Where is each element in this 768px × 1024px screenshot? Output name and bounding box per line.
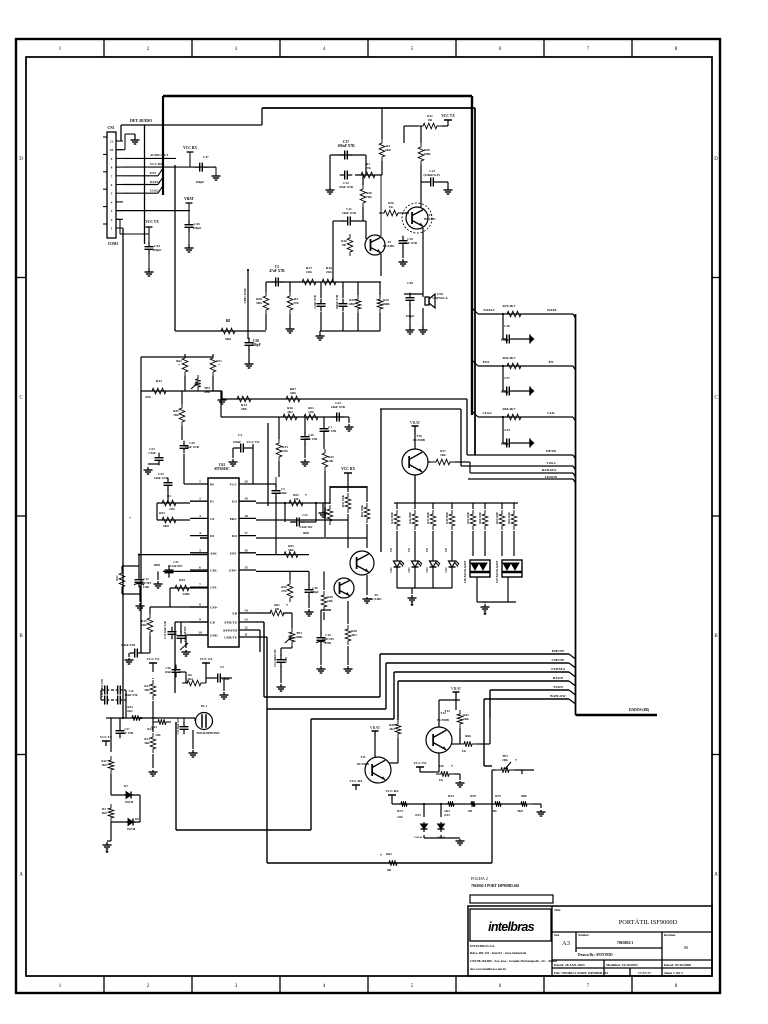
ground below C19 [402,259,404,262]
wire T2 emitter down [380,254,382,276]
svg-text:EN2: EN2 [150,171,156,175]
wire pin4 stub [200,537,208,539]
resistor R29 vertical [355,295,361,313]
resistor R77 10K [431,459,455,465]
svg-text:2.2nF/50V: 2.2nF/50V [169,564,183,568]
capacitor C23 [158,453,160,458]
svg-text:0R: 0R [428,118,433,122]
wire r51 bottom join [122,593,140,595]
svg-text:R48 390R: R48 390R [446,512,449,523]
resistor R28 vertical [263,292,269,314]
svg-text:10K: 10K [290,391,296,395]
resistor R14 [232,396,256,402]
svg-text:2.2uF/16V: 2.2uF/16V [299,525,313,529]
wire pin6 crc [163,570,208,572]
capacitor C1 47nF [323,424,325,429]
svg-text:BYPATH: BYPATH [223,629,237,633]
svg-text:VD: VD [426,548,429,552]
svg-text:C21 56nF X7R: C21 56nF X7R [177,717,180,734]
ic U1 right pin stubs and numbers [239,483,256,485]
ground pin10 [185,650,187,652]
resistor R55 56K [279,552,303,558]
svg-text:VCC RX: VCC RX [385,789,399,793]
diode D14 vertical [440,803,442,805]
svg-text:Drawn By: ANTONIO: Drawn By: ANTONIO [578,953,613,957]
wire pin11 long vertical down [266,637,268,863]
svg-text:1K8: 1K8 [101,811,107,815]
svg-text:BATLOW: BATLOW [550,694,566,698]
wire audio to C11 [332,221,334,282]
svg-text:150R: 150R [423,152,431,156]
ground right of R80 [540,810,542,812]
svg-text:VCC RX: VCC RX [341,467,355,471]
bus exit data2 [472,308,478,314]
svg-text:R64 100K: R64 100K [361,504,364,517]
svg-text:C37: C37 [504,376,510,380]
wire mic riser [175,722,177,830]
resistor R74 1K2 [443,801,459,807]
ground below C15 [139,603,141,606]
ground below C9 [223,692,225,695]
revision box empty [470,895,553,903]
capacitor C29 [181,426,183,440]
wire det ruido step [261,108,263,125]
svg-text:220R: 220R [182,592,190,596]
resistor R53 6K8 [157,517,181,523]
svg-text:R79: R79 [495,794,501,798]
ground below C45 [188,244,190,248]
svg-text:10: 10 [198,631,202,635]
resistor R42 1K8 vertical [108,756,114,774]
svg-text:Dated: 03/10/2008: Dated: 03/10/2008 [664,963,691,967]
svg-text:C4: C4 [238,433,242,437]
svg-text:EPI+: EPI+ [229,569,237,573]
row tick marks left [16,277,26,279]
capacitor C21 vertical [183,722,185,727]
intelbras logo box [470,909,551,941]
svg-text:C32: C32 [302,513,308,517]
wire batlow riser to TP1 [483,699,485,766]
wire txdata bottom horizontal [176,829,311,831]
svg-text:PORTÁTIL ISF9000D: PORTÁTIL ISF9000D [619,918,678,926]
bus entries right data/en/clk [573,314,576,318]
svg-text:ADC: ADC [210,551,218,555]
bus vertical DADOS [575,314,577,715]
svg-text:R47 390R: R47 390R [427,512,430,523]
svg-text:VOL2: VOL2 [546,461,556,465]
resistor R4 vertical [379,139,385,161]
svg-text:6K2: 6K2 [127,709,133,713]
svg-text:VD: VD [445,548,448,552]
wire RXON [398,680,569,682]
wire T2 collector up [380,175,382,236]
backlight led package LD6 [470,560,490,577]
svg-text:12: 12 [244,626,248,630]
size/number divider [575,932,577,952]
resistor R62 vertical [182,354,188,376]
svg-text:VCC RX: VCC RX [183,146,197,150]
trimmer arrow pin10 [180,643,188,650]
ground below R23 [152,770,154,772]
trimmer TP3 vertical [289,628,295,646]
svg-text:DETR: DETR [546,449,556,453]
ground at pin10 [116,149,125,151]
svg-text:18: 18 [244,514,248,518]
svg-text:D: D [19,157,23,162]
wire pin20 vcc net [256,483,276,485]
svg-text:R51: R51 [115,575,119,581]
svg-text:Rdva. BR 101 - Km212 - Area In: Rdva. BR 101 - Km212 - Area Industrial [470,951,526,955]
svg-text:100pF: 100pF [251,343,261,347]
svg-text:47K: 47K [365,166,371,170]
svg-text:2K2: 2K2 [187,677,193,681]
svg-text:*: * [380,854,382,858]
svg-text:CLK2: CLK2 [150,189,159,193]
svg-text:CEP 88.104.800 - Sao Jose - Gr: CEP 88.104.800 - Sao Jose - Grande Flori… [470,959,557,963]
resistor R67 [281,396,305,402]
resistor R73 12K [396,801,412,807]
trimmer TP2 [195,375,201,391]
svg-text:EN: EN [549,360,554,364]
resistor R8 [216,328,240,334]
svg-text:LD6 BACKLIGHT: LD6 BACKLIGHT [464,561,467,584]
svg-text:1K: 1K [389,205,394,209]
svg-text:1K8: 1K8 [101,763,107,767]
svg-text:68K: 68K [349,302,355,306]
ground right of C47 [206,166,216,168]
svg-text:6: 6 [199,566,201,570]
svg-text:4K7: 4K7 [351,633,357,637]
svg-text:(220uF/6.3V: (220uF/6.3V [423,173,441,177]
svg-text:10nF X7R: 10nF X7R [185,445,200,449]
svg-text:56K: 56K [144,688,150,692]
svg-text:76K: 76K [366,195,372,199]
wire RXDATA [470,472,573,474]
svg-text:27K: 27K [282,449,288,453]
svg-text:Sheet 1 OF 2: Sheet 1 OF 2 [664,971,683,975]
svg-text:Title: Title [554,908,561,912]
svg-text:1N4148: 1N4148 [414,836,423,839]
svg-text:1M: 1M [294,497,299,501]
ic U1 left pin stubs and numbers [190,483,208,485]
svg-text:56K: 56K [144,741,150,745]
capacitor C44 [148,234,150,244]
svg-text:47uF X7R: 47uF X7R [269,269,285,273]
svg-text:R59 150K: R59 150K [342,494,345,507]
wire pin2 loop [157,502,190,504]
wire VOL2 [461,465,573,467]
wire preamp bottom rail [320,330,380,332]
svg-text:A: A [19,873,23,878]
resistor R51 vertical [119,569,125,591]
capacitor C3 vertical [342,299,344,304]
resistor R21 12K [299,414,323,420]
svg-text:MICROPHONE: MICROPHONE [196,731,219,735]
diode D9 [111,821,140,823]
wire bottom analog rail [392,803,524,805]
resistor R12 [147,388,171,394]
svg-text:CMUTE: CMUTE [224,636,238,640]
svg-text:100nF X7R: 100nF X7R [121,643,136,647]
wire DETR [467,454,573,456]
ground below C33 [280,684,282,687]
svg-text:CRC: CRC [210,569,218,573]
wire pin14 eb [256,612,271,614]
wire TXDATA [394,671,569,673]
svg-text:*: * [129,516,131,521]
svg-text:AUDIO OUT: AUDIO OUT [150,153,169,157]
svg-text:47nF X7R: 47nF X7R [324,429,338,433]
ground R52 loop [322,511,324,513]
wire R13 down [278,461,280,477]
svg-text:R74: R74 [448,794,454,798]
svg-text:TXDATA: TXDATA [551,667,566,671]
backlight led package LD7 [502,560,522,577]
svg-text:GND: GND [210,634,218,638]
svg-text:C47: C47 [203,155,209,159]
capacitor C45 [188,211,190,222]
wire EMUTE [380,653,569,655]
svg-text:0R: 0R [342,243,347,247]
svg-text:R69 220R: R69 220R [508,512,511,523]
resistor R52 1M loop [284,500,308,506]
svg-text:P1: P1 [210,500,214,504]
svg-text:CPI+: CPI+ [210,606,218,610]
stub TP1 right [521,770,523,774]
wire R25 down to T area [324,471,326,537]
resistor R17 [297,279,321,285]
wire pin1 net [183,454,185,484]
bus entry data2 [158,177,163,185]
svg-text:DET. RUIDO: DET. RUIDO [130,119,152,123]
svg-text:8: 8 [199,603,201,607]
svg-text:LD5: LD5 [445,567,448,573]
svg-text:2K2: 2K2 [287,410,293,414]
svg-text:17: 17 [244,531,248,535]
column tick marks top [103,39,105,57]
svg-text:1.5nF: 1.5nF [148,451,156,455]
svg-text:VCC RX: VCC RX [150,162,163,166]
resistor R41 10K vertical [457,710,463,728]
svg-text:12K: 12K [397,815,403,819]
svg-text:VCC: VCC [230,483,238,487]
bus entry clk2 [158,186,163,194]
svg-text:13: 13 [244,618,248,622]
svg-text:R54: R54 [179,578,185,582]
svg-text:CLK2: CLK2 [482,411,492,415]
svg-text:BC548C: BC548C [370,597,382,601]
resistor R15 vertical [147,614,153,636]
svg-text:R36: R36 [438,764,444,768]
backlight resistors 220R [470,510,476,530]
bus riser right pair [471,96,473,415]
resistor R20 vertical [377,295,383,313]
resistor R56 4K7 [502,363,526,369]
svg-text:100nF X7R: 100nF X7R [125,694,138,697]
ground below C4 [232,459,234,462]
svg-text:1K: 1K [439,778,444,782]
resistor R10 vertical [347,234,353,256]
capacitor C9 100nF [213,677,218,679]
svg-text:5K6: 5K6 [256,301,262,305]
svg-text:7: 7 [199,583,201,587]
resistor R78 0R [466,801,480,807]
wire pin17 do [256,537,367,539]
svg-text:VBAT: VBAT [451,686,462,691]
svg-text:D14: D14 [444,813,450,817]
capacitor C27 [119,726,121,731]
wire cmute riser [385,663,387,709]
ground right of R36b [459,781,461,783]
svg-text:00: 00 [684,945,689,950]
wire TXON [490,689,569,691]
svg-text:A: A [714,873,718,878]
resistor R2 22K [157,500,181,506]
svg-text:1: 1 [199,480,201,484]
ground below T7 [366,597,368,599]
chassis ground C34 [513,442,530,444]
svg-text:1K: 1K [462,749,467,753]
svg-text:100K: 100K [295,635,303,639]
microphone EL1 [196,713,213,730]
wire TP1 riser [491,770,493,863]
svg-text:1206: 1206 [285,657,288,663]
wire pin2 loop [116,218,120,220]
transistor T12 [426,727,452,753]
svg-text:5K6: 5K6 [385,148,391,152]
svg-text:T12: T12 [440,711,446,715]
svg-text:11: 11 [244,633,248,637]
svg-text:0R: 0R [329,459,334,463]
resistor R23 56K vertical [150,733,156,753]
wire vcc rx rail horizontal [330,486,367,488]
svg-text:10K: 10K [502,758,508,762]
ground below diodes [424,837,460,839]
ground below C28 [304,459,306,462]
resistor R25 0R vertical [322,449,328,471]
svg-text:10nF X7R: 10nF X7R [121,731,135,735]
ground left of C100n [128,658,130,660]
ground below CN6 [422,326,424,330]
wire en2 row [123,175,158,177]
svg-text:Size: Size [554,933,560,937]
capacitor C16b electrolytic [320,633,322,638]
svg-text:COM1: COM1 [108,242,119,246]
capacitor C50 [248,338,250,343]
resistor R58 vertical [418,143,424,165]
wire T3 base [402,212,409,214]
svg-text:47uF X7R: 47uF X7R [339,185,354,189]
wire preamp rail upper [175,330,266,332]
wire T3 emitter down [422,228,424,294]
wire pin8 cpi+ net [170,606,208,608]
svg-text:Modified: 15/10/2003: Modified: 15/10/2003 [606,963,638,967]
svg-text:EB: EB [232,612,237,616]
wire C25 drop [167,489,169,503]
svg-text:R46 390R: R46 390R [409,512,412,523]
svg-text:10nF: 10nF [165,670,172,674]
svg-text:22K: 22K [155,733,161,737]
wire txdata return [311,718,394,720]
svg-text:LD2: LD2 [390,567,393,573]
capacitor C40 220pF [308,585,310,590]
svg-text:VCC TX: VCC TX [145,220,159,224]
title block outline [468,906,712,976]
ground right of C13 [447,187,449,190]
wire pin11 det ruido riser [120,125,122,141]
ground below C12 left [329,187,331,190]
wire pin10 gnd [186,634,208,636]
resistor R16 [317,279,341,285]
wire row y417 [221,416,342,418]
svg-text:VCC RX: VCC RX [349,779,363,783]
wire emute return to pin13 [264,696,380,698]
wire pin5 adc line [139,554,208,556]
svg-text:56K: 56K [288,548,294,552]
svg-text:*: * [515,759,517,763]
svg-text:R62: R62 [386,852,392,856]
ground below C40 [308,609,310,612]
wire pin3 loop [157,519,190,521]
svg-text:C9: C9 [220,665,224,669]
resistor R71 vertical [210,354,216,376]
svg-text:LD7 BACKLIGHT: LD7 BACKLIGHT [496,561,499,584]
ground right of C24 [348,424,350,427]
wire T10 emitter to led rail [414,475,416,503]
svg-text:100nF X7R: 100nF X7R [335,294,339,309]
svg-text:*: * [305,494,307,498]
svg-text:5K9: 5K9 [517,809,523,813]
svg-text:CMUTE: CMUTE [551,658,565,662]
led ground rail [397,587,452,589]
wire box around led section [221,398,467,400]
svg-text:2.2nF X7R: 2.2nF X7R [313,294,317,309]
svg-text:A3: A3 [562,940,570,947]
resistor R24 22K [153,719,171,725]
capacitor C25 [167,478,169,483]
wire T2 base [365,221,367,239]
wire LEDON [468,478,573,480]
wire pin18 erc [256,519,348,521]
svg-text:DATA: DATA [547,308,557,312]
backlight ground rail [476,577,478,602]
resistor R62b 0R [384,860,402,866]
svg-text:17:37:27: 17:37:27 [638,971,651,975]
svg-text:100pF: 100pF [196,180,205,184]
wire audio out [123,157,176,159]
wire pin16 epi- [256,554,309,556]
svg-text:10K: 10K [440,453,446,457]
transistor T7 [350,551,374,575]
chassis ground C16 [513,338,530,340]
resistor R30 vertical [360,185,366,207]
svg-text:10K: 10K [141,623,147,627]
svg-text:100pF: 100pF [501,442,509,446]
column tick marks bottom [103,976,105,993]
speaker CN6 CAPSULA [425,297,429,305]
svg-text:EL1: EL1 [201,704,207,708]
svg-text:*: * [451,765,453,769]
svg-text:P0: P0 [210,483,214,487]
svg-text:R45 390R: R45 390R [391,512,394,523]
wire CMUTE [386,662,569,664]
svg-text:100nF: 100nF [279,491,287,495]
wire rxon to R40 [397,681,399,720]
led supply rail [394,502,518,504]
svg-text:7063002-I PORT ISP900ID.S02: 7063002-I PORT ISP900ID.S02 [471,884,519,888]
svg-text:VBAT: VBAT [184,197,194,201]
wire CLK line [478,416,573,418]
